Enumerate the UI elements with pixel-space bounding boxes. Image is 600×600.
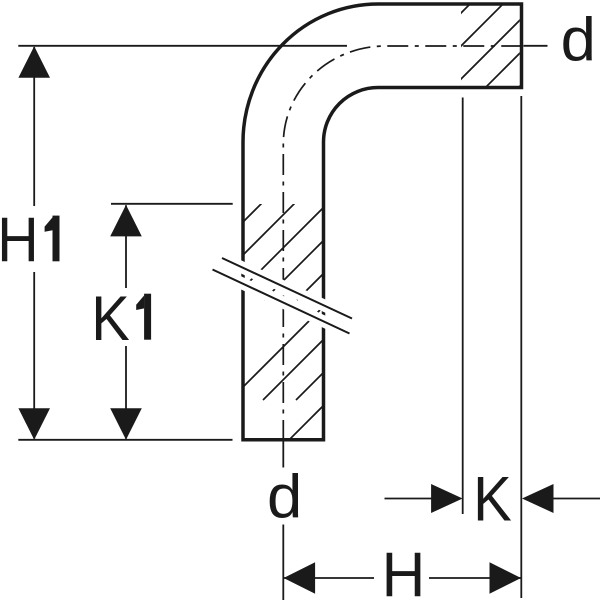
- svg-text:K: K: [91, 283, 130, 354]
- svg-text:H: H: [0, 203, 39, 274]
- svg-text:H: H: [382, 540, 426, 600]
- svg-text:K: K: [473, 463, 512, 534]
- svg-text:d: d: [267, 464, 302, 532]
- svg-text:d: d: [561, 7, 596, 75]
